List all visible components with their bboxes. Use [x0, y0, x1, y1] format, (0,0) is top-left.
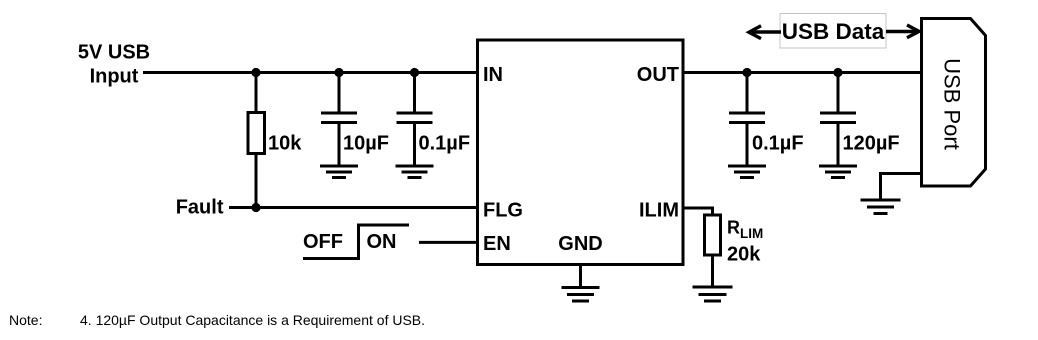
- svg-text:120µF: 120µF: [843, 133, 900, 155]
- svg-text:ILIM: ILIM: [639, 200, 679, 222]
- svg-text:EN: EN: [483, 233, 511, 255]
- svg-text:ON: ON: [367, 231, 397, 253]
- svg-text:Input: Input: [90, 66, 139, 88]
- svg-text:FLG: FLG: [483, 200, 523, 222]
- svg-text:USB Port: USB Port: [940, 58, 965, 150]
- svg-text:5V USB: 5V USB: [78, 42, 150, 64]
- svg-text:USB Data: USB Data: [782, 19, 885, 44]
- svg-text:IN: IN: [483, 64, 503, 86]
- svg-text:0.1µF: 0.1µF: [419, 133, 471, 155]
- svg-text:10k: 10k: [268, 133, 302, 155]
- svg-text:Fault: Fault: [176, 197, 224, 219]
- svg-text:10µF: 10µF: [343, 133, 389, 155]
- svg-text:0.1µF: 0.1µF: [752, 133, 804, 155]
- svg-text:20k: 20k: [727, 244, 761, 266]
- svg-text:GND: GND: [558, 233, 602, 255]
- svg-text:4. 120µF Output Capacitance is: 4. 120µF Output Capacitance is a Require…: [80, 312, 425, 328]
- svg-text:Note:: Note:: [9, 312, 42, 328]
- svg-text:OUT: OUT: [637, 64, 679, 86]
- svg-text:OFF: OFF: [303, 231, 343, 253]
